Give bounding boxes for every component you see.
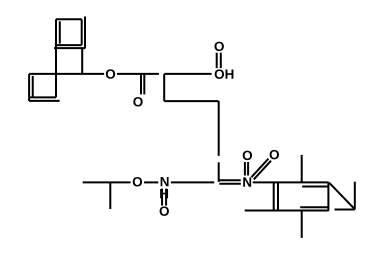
wire: diagonal bond to right group xyxy=(329,183,354,209)
wire: chain vertical left xyxy=(163,74,165,101)
node O carbonyl xyxy=(133,97,142,107)
wire: O=OH double bond line 2 xyxy=(220,53,222,68)
wire: ring B top edge (outer double) xyxy=(54,47,85,49)
wire: chain C to OH bond xyxy=(164,73,211,75)
wire: ring A bottom edge xyxy=(56,44,82,46)
wire: O=OH double bond line 1 xyxy=(216,53,218,68)
node O nitro right xyxy=(270,150,279,160)
wire: ring A right outer double bond xyxy=(84,17,86,49)
wire: chain horizontal middle xyxy=(164,100,219,102)
wire: C=N double bond line 2 xyxy=(219,183,241,185)
wire: C=N double bond line 1 xyxy=(219,179,241,181)
node O acid top xyxy=(215,42,224,52)
wire: ring C top edge and bond to ester O xyxy=(29,73,104,75)
wire: right group vertical xyxy=(354,182,356,210)
wire: N to C bond xyxy=(171,181,214,183)
wire: ring C bottom edge xyxy=(29,96,56,98)
wire: chain long vertical lower xyxy=(218,162,220,182)
wire: ring right edge xyxy=(327,182,329,210)
node H below N xyxy=(160,189,168,198)
wire: N=O below double bond line 1 xyxy=(161,189,163,206)
wire: chain long vertical upper xyxy=(218,101,220,156)
wire: long left vertical (ring A/B left edge, ring C right edge) xyxy=(55,19,57,97)
node O ester xyxy=(106,69,115,79)
wire: ring C left edge xyxy=(28,74,30,101)
wire: ring A left inner double bond xyxy=(59,21,61,43)
wire: ring bottom edge and left methyl xyxy=(245,210,329,212)
node OH xyxy=(215,69,234,79)
node O below N xyxy=(160,206,169,216)
node O nitro left xyxy=(243,151,252,161)
node N left xyxy=(161,177,169,186)
node O isopropoxy xyxy=(133,177,142,187)
wire: ring methyl down xyxy=(301,211,303,238)
wire: nitro N=O vertical double line 1 xyxy=(244,162,246,176)
wire: O to N bond xyxy=(144,181,158,183)
wire: isopropyl horizontal xyxy=(83,181,131,183)
wire: isopropyl methyl down xyxy=(109,182,111,209)
wire: ring C bottom outer double bond xyxy=(29,100,59,102)
wire: ring C left inner double bond xyxy=(32,76,34,98)
wire: ring methyl up xyxy=(301,155,303,183)
wire: ester O to carbonyl C bond xyxy=(117,73,159,75)
wire: nitro N=O vertical double line 2 xyxy=(247,162,249,176)
wire: carbonyl C=O double bond line 2 xyxy=(143,74,145,94)
wire: ring A top edge xyxy=(56,18,82,20)
wire: N to ring bond and ring top edge xyxy=(253,181,329,183)
node N nitro xyxy=(243,177,251,186)
wire: nitro N=O slanted double line 2 xyxy=(254,161,271,180)
wire: nitro N=O slanted double line 1 xyxy=(251,159,268,178)
wire: ring left edge xyxy=(277,182,279,210)
wire: right group horizontal xyxy=(335,209,355,211)
wire: ring bottom inner double bond xyxy=(300,206,328,208)
wire: ring left edge outer double xyxy=(273,182,275,210)
wire: N=O below double bond line 2 xyxy=(165,189,167,206)
wire: ring B right edge xyxy=(81,48,83,74)
wire: ring top inner double bond xyxy=(302,186,328,188)
wire: carbonyl C=O double bond line 1 xyxy=(140,74,142,94)
wire: ring A right edge xyxy=(81,19,83,45)
